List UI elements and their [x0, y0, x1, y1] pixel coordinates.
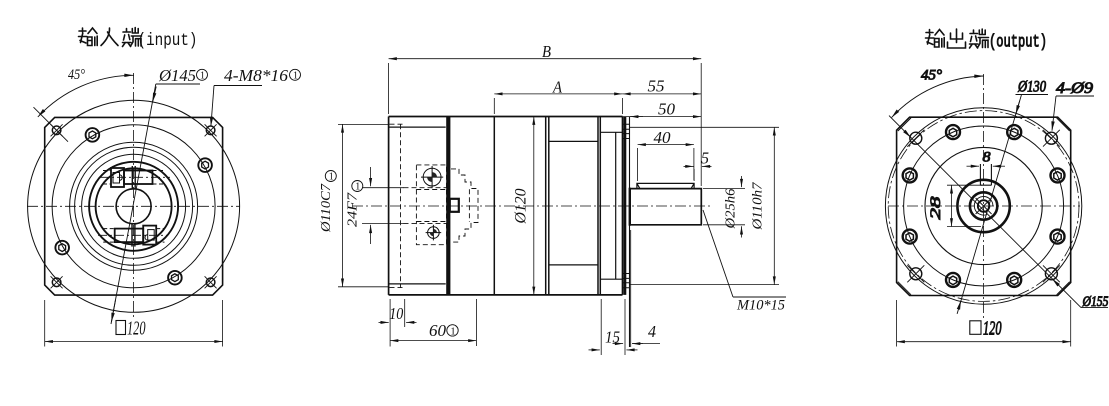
- flange inner bottom line: [389, 283, 446, 285]
- svg-text:Ø110C7: Ø110C7: [318, 183, 333, 233]
- corner hole M8 bottom-left: [51, 276, 63, 288]
- hidden gear inner line: [468, 189, 470, 222]
- clamp screw top: [103, 166, 164, 189]
- hidden clamp bore top: [404, 187, 449, 189]
- pilot hole 120deg: [86, 128, 100, 142]
- svg-text:1: 1: [293, 71, 298, 82]
- output face line: [622, 117, 624, 295]
- vertical centerline: [983, 74, 985, 320]
- section line x600.3: [599, 117, 601, 295]
- dim Ø110C7: [338, 123, 389, 125]
- shaft hub circle: [970, 192, 997, 219]
- bolt screw 112.5deg: [946, 125, 960, 139]
- corner hole M8 bottom-right: [205, 276, 217, 288]
- flange inner top line: [389, 126, 446, 128]
- ring gear section top line: [549, 140, 598, 142]
- dim A: [493, 98, 495, 114]
- ring gear section bottom line: [549, 264, 598, 266]
- bolt screw 247.5deg: [946, 273, 960, 287]
- dim B: [388, 63, 390, 114]
- leader 4-Ø9: [1052, 96, 1056, 131]
- svg-text:5: 5: [701, 149, 709, 168]
- dimension 120: [44, 300, 46, 347]
- svg-text:A: A: [552, 78, 562, 97]
- svg-text:1: 1: [200, 71, 205, 82]
- bolt screw 292.5deg: [1007, 273, 1021, 287]
- input key block: [450, 199, 459, 212]
- svg-text:Ø155: Ø155: [1082, 294, 1109, 310]
- shaft circle outer: [957, 180, 1009, 232]
- svg-text:120: 120: [983, 318, 1002, 340]
- section line x494: [493, 117, 495, 295]
- shaft keyway band: [637, 183, 694, 188]
- corner hole top-right: [1043, 130, 1060, 147]
- screw symbol bottom: [426, 225, 442, 241]
- square flange outline 120 output: [897, 117, 1071, 295]
- output face plate band: [624, 117, 627, 295]
- bolt screw 337.5deg: [1051, 230, 1065, 244]
- horizontal centerline: [888, 205, 1080, 207]
- section line x598: [597, 117, 599, 295]
- pilot hole 210deg: [55, 241, 69, 255]
- char 输: [79, 28, 88, 43]
- bolt screw 22.5deg: [1051, 168, 1065, 182]
- svg-text:24F7: 24F7: [345, 192, 360, 227]
- char 输: [926, 30, 935, 45]
- output shaft: [630, 189, 702, 225]
- dim 4: [630, 230, 632, 347]
- svg-text:1: 1: [355, 182, 360, 193]
- main centerline: [352, 205, 712, 207]
- svg-text:40: 40: [654, 128, 672, 147]
- dim 60: [475, 299, 477, 346]
- char 端: [123, 29, 132, 47]
- input bore circle: [116, 189, 151, 224]
- svg-text:55: 55: [648, 77, 665, 96]
- boss circle r59: [75, 147, 193, 265]
- input flange left face: [388, 117, 390, 295]
- svg-text:1: 1: [329, 172, 334, 183]
- section line x548.8: [548, 117, 550, 295]
- pilot boss steps top: [623, 124, 630, 138]
- dim 8 keyway: [967, 165, 980, 167]
- corner hole M8 top-left: [51, 124, 63, 136]
- title 输出端(output): [926, 29, 989, 48]
- svg-text:50: 50: [658, 100, 676, 119]
- bolt screw 202.5deg: [903, 230, 917, 244]
- svg-text:45°: 45°: [921, 68, 942, 84]
- thread arc: [974, 197, 993, 216]
- corner hole bottom-right: [1043, 265, 1060, 282]
- hidden screw box top: [416, 165, 446, 190]
- flange circle Ø155: [885, 108, 1081, 304]
- square flange outline 120: [45, 117, 223, 295]
- char 入: [101, 28, 118, 46]
- svg-text:60: 60: [429, 321, 447, 340]
- leader line Ø145: [111, 84, 156, 324]
- pilot hole 300deg: [168, 271, 182, 285]
- leader M10*15: [703, 210, 733, 297]
- hidden cavity sides: [416, 190, 446, 222]
- svg-text:Ø110h7: Ø110h7: [750, 181, 765, 230]
- recess circle r52: [82, 154, 186, 258]
- square symbol of 120 label: [970, 321, 981, 335]
- dim 10: [389, 299, 391, 347]
- screw symbol top: [421, 166, 443, 188]
- svg-text:(input): (input): [138, 31, 198, 51]
- output flange inner line: [615, 132, 617, 279]
- svg-text:4-M8*16: 4-M8*16: [224, 66, 289, 85]
- svg-text:1: 1: [450, 326, 455, 337]
- pilot boss steps bottom: [623, 274, 630, 288]
- corner hole bottom-left: [907, 265, 924, 282]
- svg-text:15: 15: [605, 328, 620, 347]
- svg-text:Ø25h6: Ø25h6: [723, 188, 738, 229]
- svg-text:Ø120: Ø120: [513, 188, 530, 224]
- clamp screw bottom: [103, 224, 164, 247]
- bolt circle: [52, 125, 215, 288]
- svg-text:45°: 45°: [68, 67, 85, 83]
- dim Ø25h6: [703, 188, 745, 190]
- leader line 4-M8*16: [214, 85, 262, 87]
- svg-text:120: 120: [127, 318, 146, 340]
- dim 50: [623, 116, 702, 118]
- char 出: [948, 29, 966, 48]
- square symbol of 120 label: [116, 321, 126, 335]
- dim 40: [637, 148, 639, 181]
- title 输入端(input): [79, 28, 142, 47]
- svg-text:10: 10: [389, 304, 403, 323]
- body bottom edge: [389, 294, 623, 296]
- dim 15: [600, 299, 602, 355]
- flange circle Ø145: [28, 100, 240, 312]
- keyway slot: [980, 164, 991, 185]
- 45deg line through corner hole: [34, 107, 69, 142]
- bolt screw 67.5deg: [1007, 125, 1021, 139]
- dim 120: [896, 300, 898, 347]
- 45deg dimension arc: [38, 75, 134, 117]
- pitch circle Ø130 dash-dot: [888, 111, 1079, 302]
- center tapped hole: [978, 200, 990, 212]
- hidden pilot lip bottom: [390, 287, 404, 289]
- boss circle r64: [70, 142, 198, 270]
- svg-text:Ø130: Ø130: [1017, 79, 1046, 96]
- dim 24F7: [362, 187, 404, 189]
- vertical centerline: [133, 73, 135, 320]
- 45deg dimension arc: [892, 76, 984, 118]
- svg-text:Ø145: Ø145: [158, 66, 196, 85]
- dim Ø110h7: [630, 126, 779, 128]
- corner hole top-left: [907, 130, 924, 147]
- bolt screw 157.5deg: [903, 168, 917, 182]
- collar outer circle: [89, 162, 178, 251]
- boss circle r58.6: [925, 147, 1042, 264]
- char 端: [970, 30, 979, 48]
- clamp screw bottom centerline: [98, 234, 168, 236]
- leader line Ø155 45deg: [889, 116, 1081, 308]
- leader line Ø130: [957, 95, 1021, 314]
- hidden gear steps: [451, 169, 478, 242]
- clamp hub circle: [96, 168, 172, 244]
- corner hole M8 top-right: [205, 124, 217, 136]
- clamp screw top centerline: [100, 176, 170, 178]
- dim 5: [693, 169, 695, 181]
- dim Ø120: [533, 117, 535, 295]
- bolt circle: [904, 126, 1064, 286]
- output flange notch top: [600, 131, 622, 133]
- dim 55: [622, 93, 701, 95]
- center hole cross: [976, 198, 992, 214]
- section line x545.7: [545, 117, 547, 295]
- dim 28: [947, 184, 982, 186]
- svg-text:4: 4: [648, 322, 656, 341]
- body top edge: [389, 116, 623, 118]
- square chamfer double lines: [898, 118, 1070, 295]
- shaft base thick edge: [629, 188, 631, 226]
- svg-text:8: 8: [983, 150, 992, 166]
- svg-text:4-Ø9: 4-Ø9: [1056, 80, 1093, 97]
- pilot boss face line: [629, 117, 631, 347]
- hidden pilot lip top: [390, 123, 404, 125]
- flange/body joint thick line: [446, 117, 450, 295]
- svg-text:28: 28: [928, 196, 944, 220]
- horizontal centerline: [27, 205, 240, 207]
- svg-text:M10*15: M10*15: [736, 298, 785, 314]
- svg-text:B: B: [542, 42, 552, 61]
- hidden clamp bore bottom: [404, 222, 449, 224]
- hidden motor pilot line vertical: [400, 124, 402, 287]
- pilot hole 30deg: [198, 158, 212, 172]
- svg-text:(output): (output): [989, 33, 1047, 53]
- output flange notch bottom: [600, 278, 622, 280]
- hidden screw box bottom: [416, 222, 446, 245]
